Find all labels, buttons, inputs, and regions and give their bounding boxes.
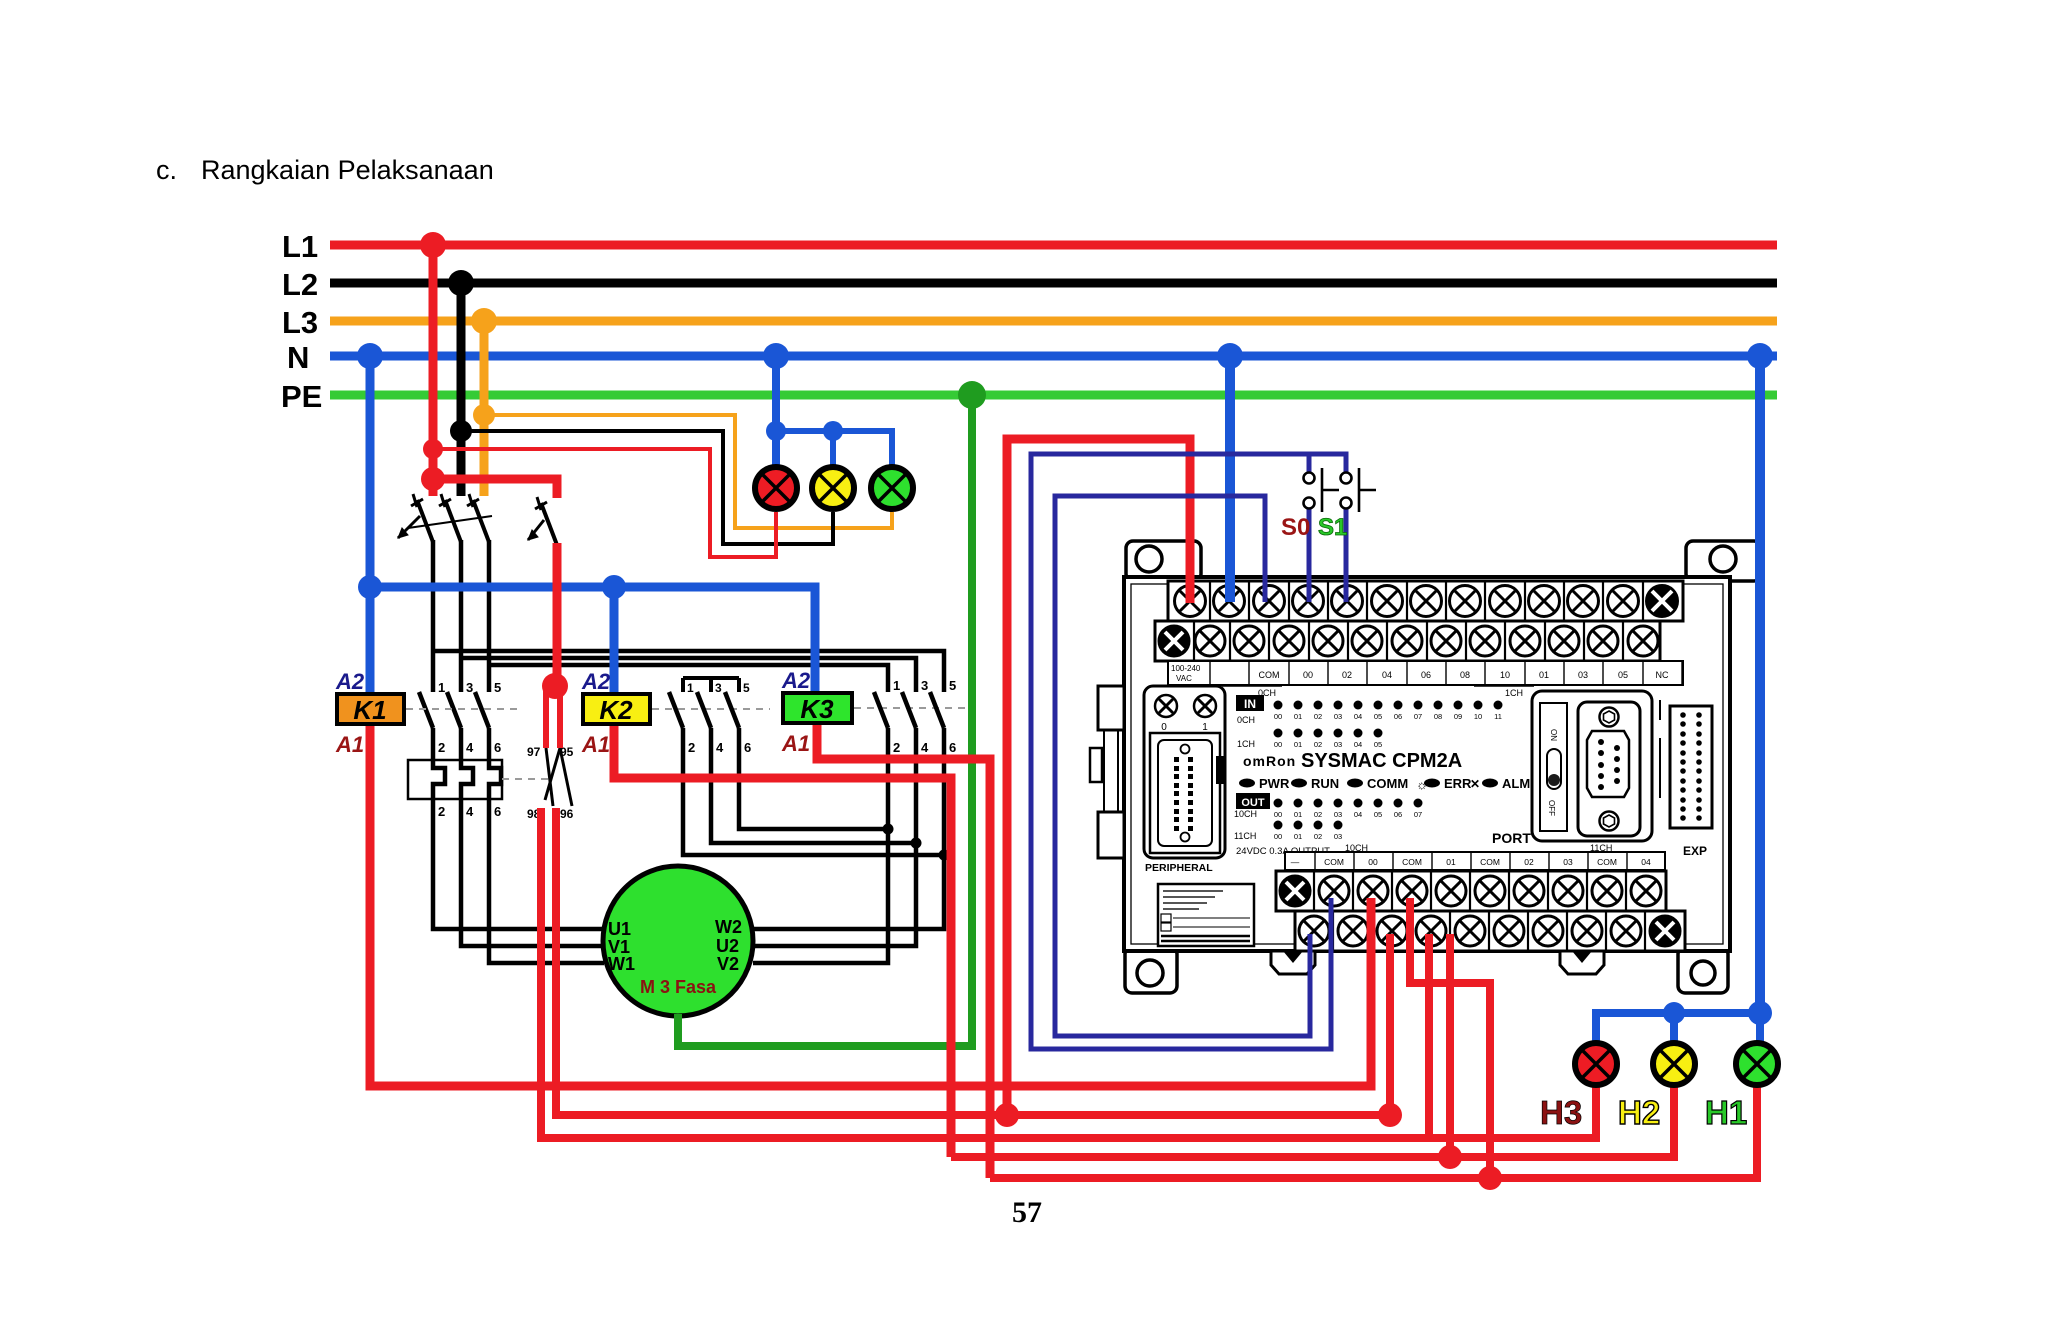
wire feeders to K3 tops xyxy=(433,651,944,692)
svg-text:2: 2 xyxy=(438,804,445,819)
svg-text:1: 1 xyxy=(687,681,694,695)
svg-text:H3: H3 xyxy=(1540,1094,1582,1131)
svg-text:02: 02 xyxy=(1314,740,1322,749)
wire pilot lamp blue link xyxy=(776,431,892,466)
wire L3 drop to MCB xyxy=(480,321,489,496)
svg-text:4: 4 xyxy=(716,740,724,755)
wire K2 coil A1 to bus D xyxy=(614,724,951,1157)
svg-text:03: 03 xyxy=(1334,810,1342,819)
svg-text:1: 1 xyxy=(893,678,900,693)
wire K1 poles to motor left terminals xyxy=(433,799,604,929)
PLC bottom label strip xyxy=(1285,852,1665,870)
svg-text:03: 03 xyxy=(1563,857,1573,867)
wire L3 thin tap to green pilot lamp xyxy=(484,415,892,528)
svg-text:K3: K3 xyxy=(800,694,834,724)
svg-text:L3: L3 xyxy=(282,305,318,340)
node pilot blue 1 xyxy=(766,421,786,441)
svg-text:6: 6 xyxy=(744,740,751,755)
svg-text:4: 4 xyxy=(466,740,474,755)
node star-delta V2 xyxy=(883,824,894,835)
svg-text:PE: PE xyxy=(281,379,322,414)
svg-text:H2: H2 xyxy=(1618,1094,1660,1131)
PLC mounting tab top-right xyxy=(1686,541,1761,581)
svg-text:S1: S1 xyxy=(1318,514,1347,541)
node N rail PLC xyxy=(1217,343,1243,369)
svg-text:COM: COM xyxy=(1480,857,1500,867)
contactor K1 main contacts xyxy=(419,692,489,760)
svg-text:RUN: RUN xyxy=(1311,776,1339,791)
svg-text:V2: V2 xyxy=(717,954,739,974)
svg-text:U2: U2 xyxy=(716,936,739,956)
svg-text:03: 03 xyxy=(1334,832,1342,841)
svg-text:05: 05 xyxy=(1374,810,1382,819)
svg-text:2: 2 xyxy=(688,740,695,755)
svg-text:COMM: COMM xyxy=(1367,776,1408,791)
thermal overload relay F1 box xyxy=(408,760,502,799)
wire L1 thin tap to red pilot lamp xyxy=(433,449,776,557)
PLC mounting tab bottom-left xyxy=(1125,947,1177,993)
svg-text:☼: ☼ xyxy=(1416,777,1428,792)
PLC body xyxy=(1124,577,1730,951)
svg-text:03: 03 xyxy=(1334,740,1342,749)
svg-text:05: 05 xyxy=(1618,670,1628,680)
node L3 tap xyxy=(473,404,495,426)
wire PLC output to bus C xyxy=(1425,934,1433,1138)
svg-text:00: 00 xyxy=(1274,832,1282,841)
svg-text:96: 96 xyxy=(560,807,574,821)
svg-text:U1: U1 xyxy=(608,919,631,939)
svg-text:0CH: 0CH xyxy=(1237,715,1255,725)
contactor K3 main contacts xyxy=(874,692,944,855)
svg-text:SYSMAC CPM2A: SYSMAC CPM2A xyxy=(1301,750,1462,772)
wire L2 thin tap to yellow pilot lamp xyxy=(461,431,833,544)
svg-text:5: 5 xyxy=(743,681,750,695)
svg-text:EXP: EXP xyxy=(1683,844,1707,858)
wire PE drop to motor earth xyxy=(678,395,972,1046)
wire PLC output jog to bus E xyxy=(1410,898,1490,1178)
svg-text:2: 2 xyxy=(893,740,900,755)
svg-text:5: 5 xyxy=(494,680,501,695)
svg-text:10CH: 10CH xyxy=(1234,809,1257,819)
svg-text:1: 1 xyxy=(1202,722,1208,733)
node N rail left xyxy=(357,343,383,369)
svg-text:02: 02 xyxy=(1314,712,1322,721)
wire coil bus N to K2 K3 A2 xyxy=(370,587,815,694)
svg-text:04: 04 xyxy=(1382,670,1392,680)
svg-text:57: 57 xyxy=(1012,1196,1042,1229)
svg-text:06: 06 xyxy=(1394,712,1402,721)
MCB output verticals to K1 xyxy=(431,540,436,692)
wire aux 96 to bus B xyxy=(556,808,1390,1115)
svg-text:W2: W2 xyxy=(715,917,742,937)
terminal labels K3 xyxy=(893,678,956,755)
svg-text:A2: A2 xyxy=(335,669,365,694)
node pilot blue 2 xyxy=(823,421,843,441)
rail PE xyxy=(330,391,1777,400)
svg-text:A1: A1 xyxy=(581,732,610,757)
PLC mounting tab top-left xyxy=(1126,541,1201,581)
svg-text:ON: ON xyxy=(1549,729,1558,741)
wire aux contact top stubs xyxy=(546,686,560,748)
svg-text:5: 5 xyxy=(949,678,956,693)
svg-text:2: 2 xyxy=(438,740,445,755)
svg-text:11CH: 11CH xyxy=(1234,831,1256,841)
svg-text:IN: IN xyxy=(1244,697,1256,711)
svg-text:NC: NC xyxy=(1656,670,1669,680)
svg-text:0: 0 xyxy=(1161,722,1167,733)
wire K2 bottoms to star-delta nodes xyxy=(683,728,944,855)
svg-text:M 3 Fasa: M 3 Fasa xyxy=(640,977,717,997)
node L3 rail junction xyxy=(471,308,497,334)
single-pole breaker Q2 symbol xyxy=(528,497,557,545)
svg-text:W1: W1 xyxy=(608,954,635,974)
svg-text:01: 01 xyxy=(1446,857,1456,867)
PLC top terminal row 2 xyxy=(1155,621,1660,661)
svg-text:A1: A1 xyxy=(781,731,810,756)
wire L1 branch to control breaker xyxy=(433,479,557,498)
contactor K3 coil box xyxy=(783,693,852,724)
node N rail right xyxy=(1747,343,1773,369)
PLC top terminal row 1 xyxy=(1168,581,1683,621)
PLC top label strip xyxy=(1168,661,1683,685)
svg-text:10: 10 xyxy=(1500,670,1510,680)
node L1 branch xyxy=(421,467,445,491)
svg-text:97: 97 xyxy=(527,745,541,759)
wire K2 coil A2 drop xyxy=(610,587,619,694)
contactor K1 coil box xyxy=(337,694,404,725)
svg-text:VAC: VAC xyxy=(1176,674,1192,683)
PLC mounting tab bottom-right xyxy=(1678,947,1728,993)
lamp H1 green xyxy=(1736,1043,1778,1085)
svg-text:04: 04 xyxy=(1354,712,1362,721)
svg-text:3: 3 xyxy=(715,681,722,695)
svg-text:ALM: ALM xyxy=(1502,776,1530,791)
wire aux 98 to bus C xyxy=(541,808,1596,1138)
node bus E xyxy=(1478,1166,1502,1190)
terminal labels K2 top 1 3 5 xyxy=(687,681,750,695)
wire K3 coil A1 to bus E xyxy=(817,722,990,1178)
svg-text:00: 00 xyxy=(1274,810,1282,819)
wire bus D to H2 xyxy=(951,1086,1674,1157)
MCB Q1 3-pole breaker symbol xyxy=(398,494,492,542)
svg-text:COM: COM xyxy=(1259,670,1280,680)
svg-text:00: 00 xyxy=(1274,740,1282,749)
PLC DIN feet xyxy=(1271,951,1315,974)
rail L1 xyxy=(330,241,1777,250)
svg-text:K1: K1 xyxy=(353,695,386,725)
rail L3 xyxy=(330,317,1777,326)
svg-text:ERR: ERR xyxy=(1444,776,1472,791)
svg-text:04: 04 xyxy=(1354,810,1362,819)
svg-text:03: 03 xyxy=(1334,712,1342,721)
svg-text:6: 6 xyxy=(949,740,956,755)
pilot lamp red xyxy=(755,467,797,509)
wire PLC input hot loop xyxy=(1007,439,1190,1115)
contactor K2 star bridge bar xyxy=(683,678,739,692)
rail N xyxy=(330,352,1777,361)
wire bus E to H1 xyxy=(990,1086,1757,1178)
svg-text:OFF: OFF xyxy=(1547,800,1556,816)
wire H lamp blue bus xyxy=(1596,1013,1760,1043)
svg-text:11: 11 xyxy=(1494,712,1502,721)
svg-text:L2: L2 xyxy=(282,267,318,302)
svg-text:05: 05 xyxy=(1374,740,1382,749)
motor M1 3-phase xyxy=(603,866,753,1016)
PLC DIN clip left xyxy=(1098,686,1124,730)
node H lamp bus 2 xyxy=(1748,1001,1772,1025)
svg-text:✕: ✕ xyxy=(1470,777,1480,791)
node L1 thin tap xyxy=(423,439,443,459)
svg-text:01: 01 xyxy=(1294,832,1302,841)
svg-text:01: 01 xyxy=(1294,740,1302,749)
overload aux contact 95-96 97-98 xyxy=(545,748,572,806)
svg-text:02: 02 xyxy=(1342,670,1352,680)
node L2 rail junction xyxy=(448,270,474,296)
node star-delta U2 xyxy=(911,838,922,849)
node bus D xyxy=(1438,1145,1462,1169)
PLC peripheral port xyxy=(1144,686,1225,858)
svg-text:PORT: PORT xyxy=(1492,830,1531,846)
terminal labels K1 top 1 3 5 xyxy=(438,680,501,819)
svg-text:05: 05 xyxy=(1374,712,1382,721)
pushbutton S0 NC xyxy=(1304,468,1340,512)
lamp H2 yellow xyxy=(1653,1043,1695,1085)
svg-text:00: 00 xyxy=(1303,670,1313,680)
node L1 rail junction xyxy=(420,232,446,258)
svg-text:02: 02 xyxy=(1524,857,1534,867)
PLC PORT block with DB9 xyxy=(1532,691,1652,841)
PLC info label box xyxy=(1158,884,1254,946)
terminal labels K2 bottom 2 4 6 xyxy=(688,740,751,755)
node bus B screw xyxy=(1378,1103,1402,1127)
svg-text:COM: COM xyxy=(1324,857,1344,867)
svg-text:6: 6 xyxy=(494,740,501,755)
contactor K2 main contacts xyxy=(669,692,739,728)
pilot lamp yellow xyxy=(812,467,854,509)
svg-text:OUT: OUT xyxy=(1241,797,1265,809)
svg-text:00: 00 xyxy=(1274,712,1282,721)
PLC bottom terminal row upper xyxy=(1276,871,1666,911)
svg-text:H1: H1 xyxy=(1705,1094,1747,1131)
wire navy stub S0 top xyxy=(1307,454,1312,472)
svg-text:omRon: omRon xyxy=(1243,753,1296,769)
svg-text:COM: COM xyxy=(1402,857,1422,867)
svg-text:COM: COM xyxy=(1597,857,1617,867)
svg-text:4: 4 xyxy=(921,740,929,755)
wire N drop to PLC input common xyxy=(1225,356,1235,602)
wire navy S1 bottom to PLC in4 xyxy=(1344,508,1349,602)
svg-text:3: 3 xyxy=(466,680,473,695)
pilot lamp green xyxy=(871,467,913,509)
wire navy S0 bottom to PLC in3 xyxy=(1307,508,1312,602)
svg-text:PWR: PWR xyxy=(1259,776,1290,791)
svg-text:08: 08 xyxy=(1460,670,1470,680)
svg-text:00: 00 xyxy=(1368,857,1378,867)
PLC OUT indicator block xyxy=(1236,793,1270,809)
svg-text:4: 4 xyxy=(466,804,474,819)
wire navy inner loop PLC in2 xyxy=(1055,496,1310,1036)
PLC OMRON SYSMAC CPM2A xyxy=(1090,541,1761,993)
svg-text:S0: S0 xyxy=(1281,514,1310,541)
svg-text:A2: A2 xyxy=(781,668,811,693)
wire control breaker to overload aux xyxy=(553,543,562,686)
wire navy outer loop buttons common xyxy=(1031,454,1346,1049)
pushbutton S1 NO xyxy=(1341,468,1377,512)
node coil bus K2 xyxy=(602,575,626,599)
svg-text:PERIPHERAL: PERIPHERAL xyxy=(1145,862,1213,874)
svg-text:c.: c. xyxy=(156,155,177,185)
svg-text:07: 07 xyxy=(1414,810,1422,819)
dashed link K3 to contacts xyxy=(854,707,965,709)
wire N drop to H lamps xyxy=(1755,356,1765,1013)
svg-text:06: 06 xyxy=(1394,810,1402,819)
dashed link overload box xyxy=(502,778,548,780)
dashed link K1 to contacts xyxy=(406,708,523,710)
svg-text:100-240: 100-240 xyxy=(1171,664,1201,673)
contactor K2 coil box xyxy=(583,694,650,725)
wire K1 coil A1 to PLC output bus A xyxy=(370,724,1371,1086)
PLC IN indicator block xyxy=(1236,695,1264,711)
svg-text:04: 04 xyxy=(1354,740,1362,749)
svg-text:06: 06 xyxy=(1421,670,1431,680)
PLC bottom terminal row lower xyxy=(1295,911,1685,951)
overload heater zigzags xyxy=(433,760,501,799)
node L2 tap xyxy=(450,420,472,442)
svg-text:10: 10 xyxy=(1474,712,1482,721)
svg-text:01: 01 xyxy=(1539,670,1549,680)
wire nodes to motor right terminals xyxy=(753,855,944,929)
node N rail pilot xyxy=(763,343,789,369)
svg-text:01: 01 xyxy=(1294,810,1302,819)
svg-text:07: 07 xyxy=(1414,712,1422,721)
dashed link K2 to contacts xyxy=(652,708,770,710)
wire N drop to pilot lamps xyxy=(772,356,780,466)
node star-delta W2 xyxy=(939,850,950,861)
svg-text:—: — xyxy=(1291,857,1300,867)
wire L1 drop to MCB xyxy=(429,245,438,496)
wire N drop to K1 coil A2 xyxy=(366,356,375,694)
svg-text:1CH: 1CH xyxy=(1237,739,1255,749)
svg-text:02: 02 xyxy=(1314,832,1322,841)
svg-text:N: N xyxy=(287,340,309,375)
lamp H3 red xyxy=(1575,1043,1617,1085)
svg-text:01: 01 xyxy=(1294,712,1302,721)
node coil bus K1 xyxy=(358,575,382,599)
svg-text:Rangkaian Pelaksanaan: Rangkaian Pelaksanaan xyxy=(201,155,494,185)
svg-text:A2: A2 xyxy=(581,669,611,694)
PLC status LEDs xyxy=(1239,779,1255,788)
svg-text:A1: A1 xyxy=(335,732,364,757)
wire PLC output to bus D xyxy=(1446,934,1454,1157)
svg-text:1CH: 1CH xyxy=(1505,688,1523,698)
rail L2 xyxy=(330,279,1777,288)
node overload aux feed xyxy=(542,673,568,699)
svg-text:L1: L1 xyxy=(282,229,318,264)
svg-text:03: 03 xyxy=(1578,670,1588,680)
PLC EXP connector xyxy=(1670,706,1712,828)
svg-text:1: 1 xyxy=(438,680,445,695)
wire L2 drop to MCB xyxy=(457,283,466,496)
node PE junction xyxy=(958,381,986,409)
svg-text:6: 6 xyxy=(494,804,501,819)
svg-text:K2: K2 xyxy=(599,695,633,725)
svg-text:09: 09 xyxy=(1454,712,1462,721)
svg-text:02: 02 xyxy=(1314,810,1322,819)
svg-text:3: 3 xyxy=(921,678,928,693)
node H lamp bus 1 xyxy=(1663,1002,1685,1024)
svg-text:04: 04 xyxy=(1641,857,1651,867)
svg-text:08: 08 xyxy=(1434,712,1442,721)
node bus B tap xyxy=(995,1103,1019,1127)
